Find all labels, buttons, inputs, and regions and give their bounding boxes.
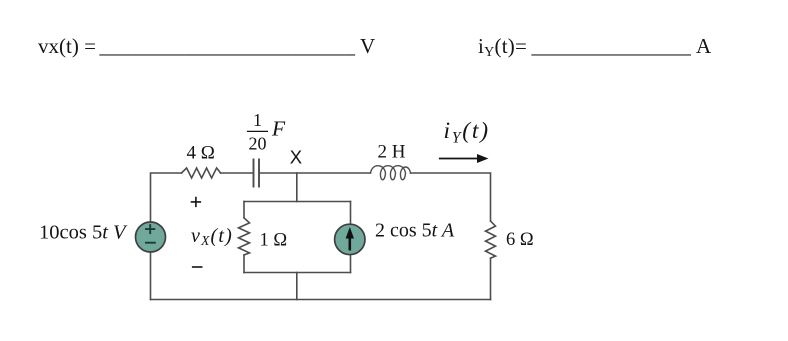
current source arrow [348,233,351,251]
wire inner box left edge top [243,202,245,218]
svg-text:________________________: ________________________ [99,34,356,58]
wire right bottom segment [490,258,492,299]
node X wire down to inner box [296,173,298,202]
svg-text:V: V [360,34,375,58]
inductor L 2H [371,166,411,180]
svg-text:iY(t): iY(t) [444,118,490,147]
svg-text:2 H: 2 H [378,142,406,163]
svg-text:20: 20 [249,134,267,154]
svg-text:_______________: _______________ [531,34,692,58]
svg-text:X: X [290,146,302,167]
resistor R 1ohm [239,218,250,255]
wire bottom rail [151,299,491,301]
wire inner box bottom edge [244,272,351,274]
svg-text:1: 1 [253,110,262,130]
wire capacitor to inductor [260,172,371,174]
svg-text:F: F [271,117,286,141]
svg-text:6 Ω: 6 Ω [506,230,534,250]
label vx minus [192,266,203,268]
svg-text:10cos 5t V: 10cos 5t V [39,222,128,244]
capacitor C 1/20F plates [254,160,260,187]
wire top-left segment [151,173,182,222]
svg-text:A: A [696,34,712,58]
svg-text:vx(t) =: vx(t) = [38,34,96,58]
wire inner box top edge [244,201,351,203]
svg-text:1 Ω: 1 Ω [260,231,288,251]
arrow iY direction [439,158,479,160]
svg-text:4 Ω: 4 Ω [187,143,215,164]
svg-text:iY(t)=: iY(t)= [478,34,527,60]
voltage source minus sign [145,242,156,244]
voltage source plus sign [145,224,155,234]
wire inductor to top-right corner and down [411,173,491,221]
wire inner box bottom to bottom rail [296,273,298,300]
wire inner box right edge [350,202,352,273]
current source IS 2cos5t circle [335,224,365,254]
voltage source VS 10cos5t circle [136,222,166,252]
resistor R 4ohm [182,168,221,178]
wire inner box left edge bottom [243,255,245,273]
svg-text:vX(t): vX(t) [191,225,233,248]
label vx plus [191,197,201,207]
wire resistor to capacitor [221,172,253,174]
resistor R 6ohm [486,221,496,258]
wire left bottom segment [150,252,152,300]
svg-text:2 cos 5t A: 2 cos 5t A [375,220,455,242]
